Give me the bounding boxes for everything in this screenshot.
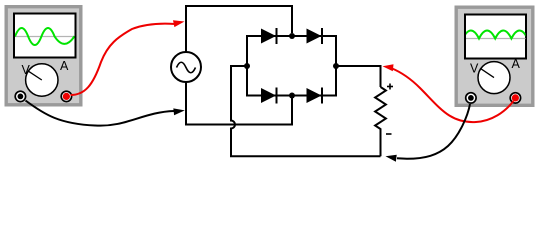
svg-text:A: A <box>512 57 521 71</box>
resistor R load <box>375 87 386 156</box>
wire: right node to resistor top <box>336 66 381 87</box>
meter M1 screen centerline <box>15 36 75 38</box>
diode D4 <box>307 88 323 104</box>
label plus <box>387 84 393 90</box>
meter M2 screen <box>465 15 526 59</box>
bridge rectangle wires <box>247 36 336 96</box>
meter M1 screen <box>14 14 76 58</box>
node bottom <box>289 93 295 99</box>
meter M1 body <box>5 5 83 107</box>
wire: left node down with hop to bottom rail <box>231 66 381 156</box>
meter M2 needle <box>481 69 494 78</box>
diode D3 <box>261 88 277 104</box>
node top <box>289 33 295 39</box>
svg-text:V: V <box>470 62 479 76</box>
wire: source bottom to bridge bottom node <box>186 82 292 125</box>
label minus <box>386 133 392 135</box>
meter M1 sine trace <box>15 28 75 45</box>
black lead M1 to source bottom <box>26 101 185 126</box>
meter M1 needle <box>29 71 42 80</box>
meter M2 dial <box>478 62 510 94</box>
AC source sine symbol <box>177 62 196 73</box>
black lead M2 to resistor minus <box>386 104 471 162</box>
meter M2 body <box>455 6 535 108</box>
meter M2 rectified trace <box>463 31 528 39</box>
wire: source top to bridge top node <box>186 6 292 52</box>
meter M1 dial <box>26 64 58 96</box>
meter M1 red terminal <box>61 91 71 101</box>
meter M2 black terminal <box>466 93 476 103</box>
meter M2 red terminal <box>510 93 520 103</box>
AC source V1 <box>171 52 201 82</box>
svg-text:V: V <box>22 63 31 77</box>
node right <box>333 63 339 69</box>
red lead M1 to source top <box>71 20 185 95</box>
meter M1 black terminal <box>15 91 25 101</box>
svg-text:A: A <box>60 59 69 73</box>
meter M2 screen centerline <box>466 38 526 40</box>
red lead M2 to resistor plus <box>383 64 514 122</box>
diode D2 <box>307 28 323 44</box>
node left <box>244 63 250 69</box>
diode D1 <box>261 28 277 44</box>
